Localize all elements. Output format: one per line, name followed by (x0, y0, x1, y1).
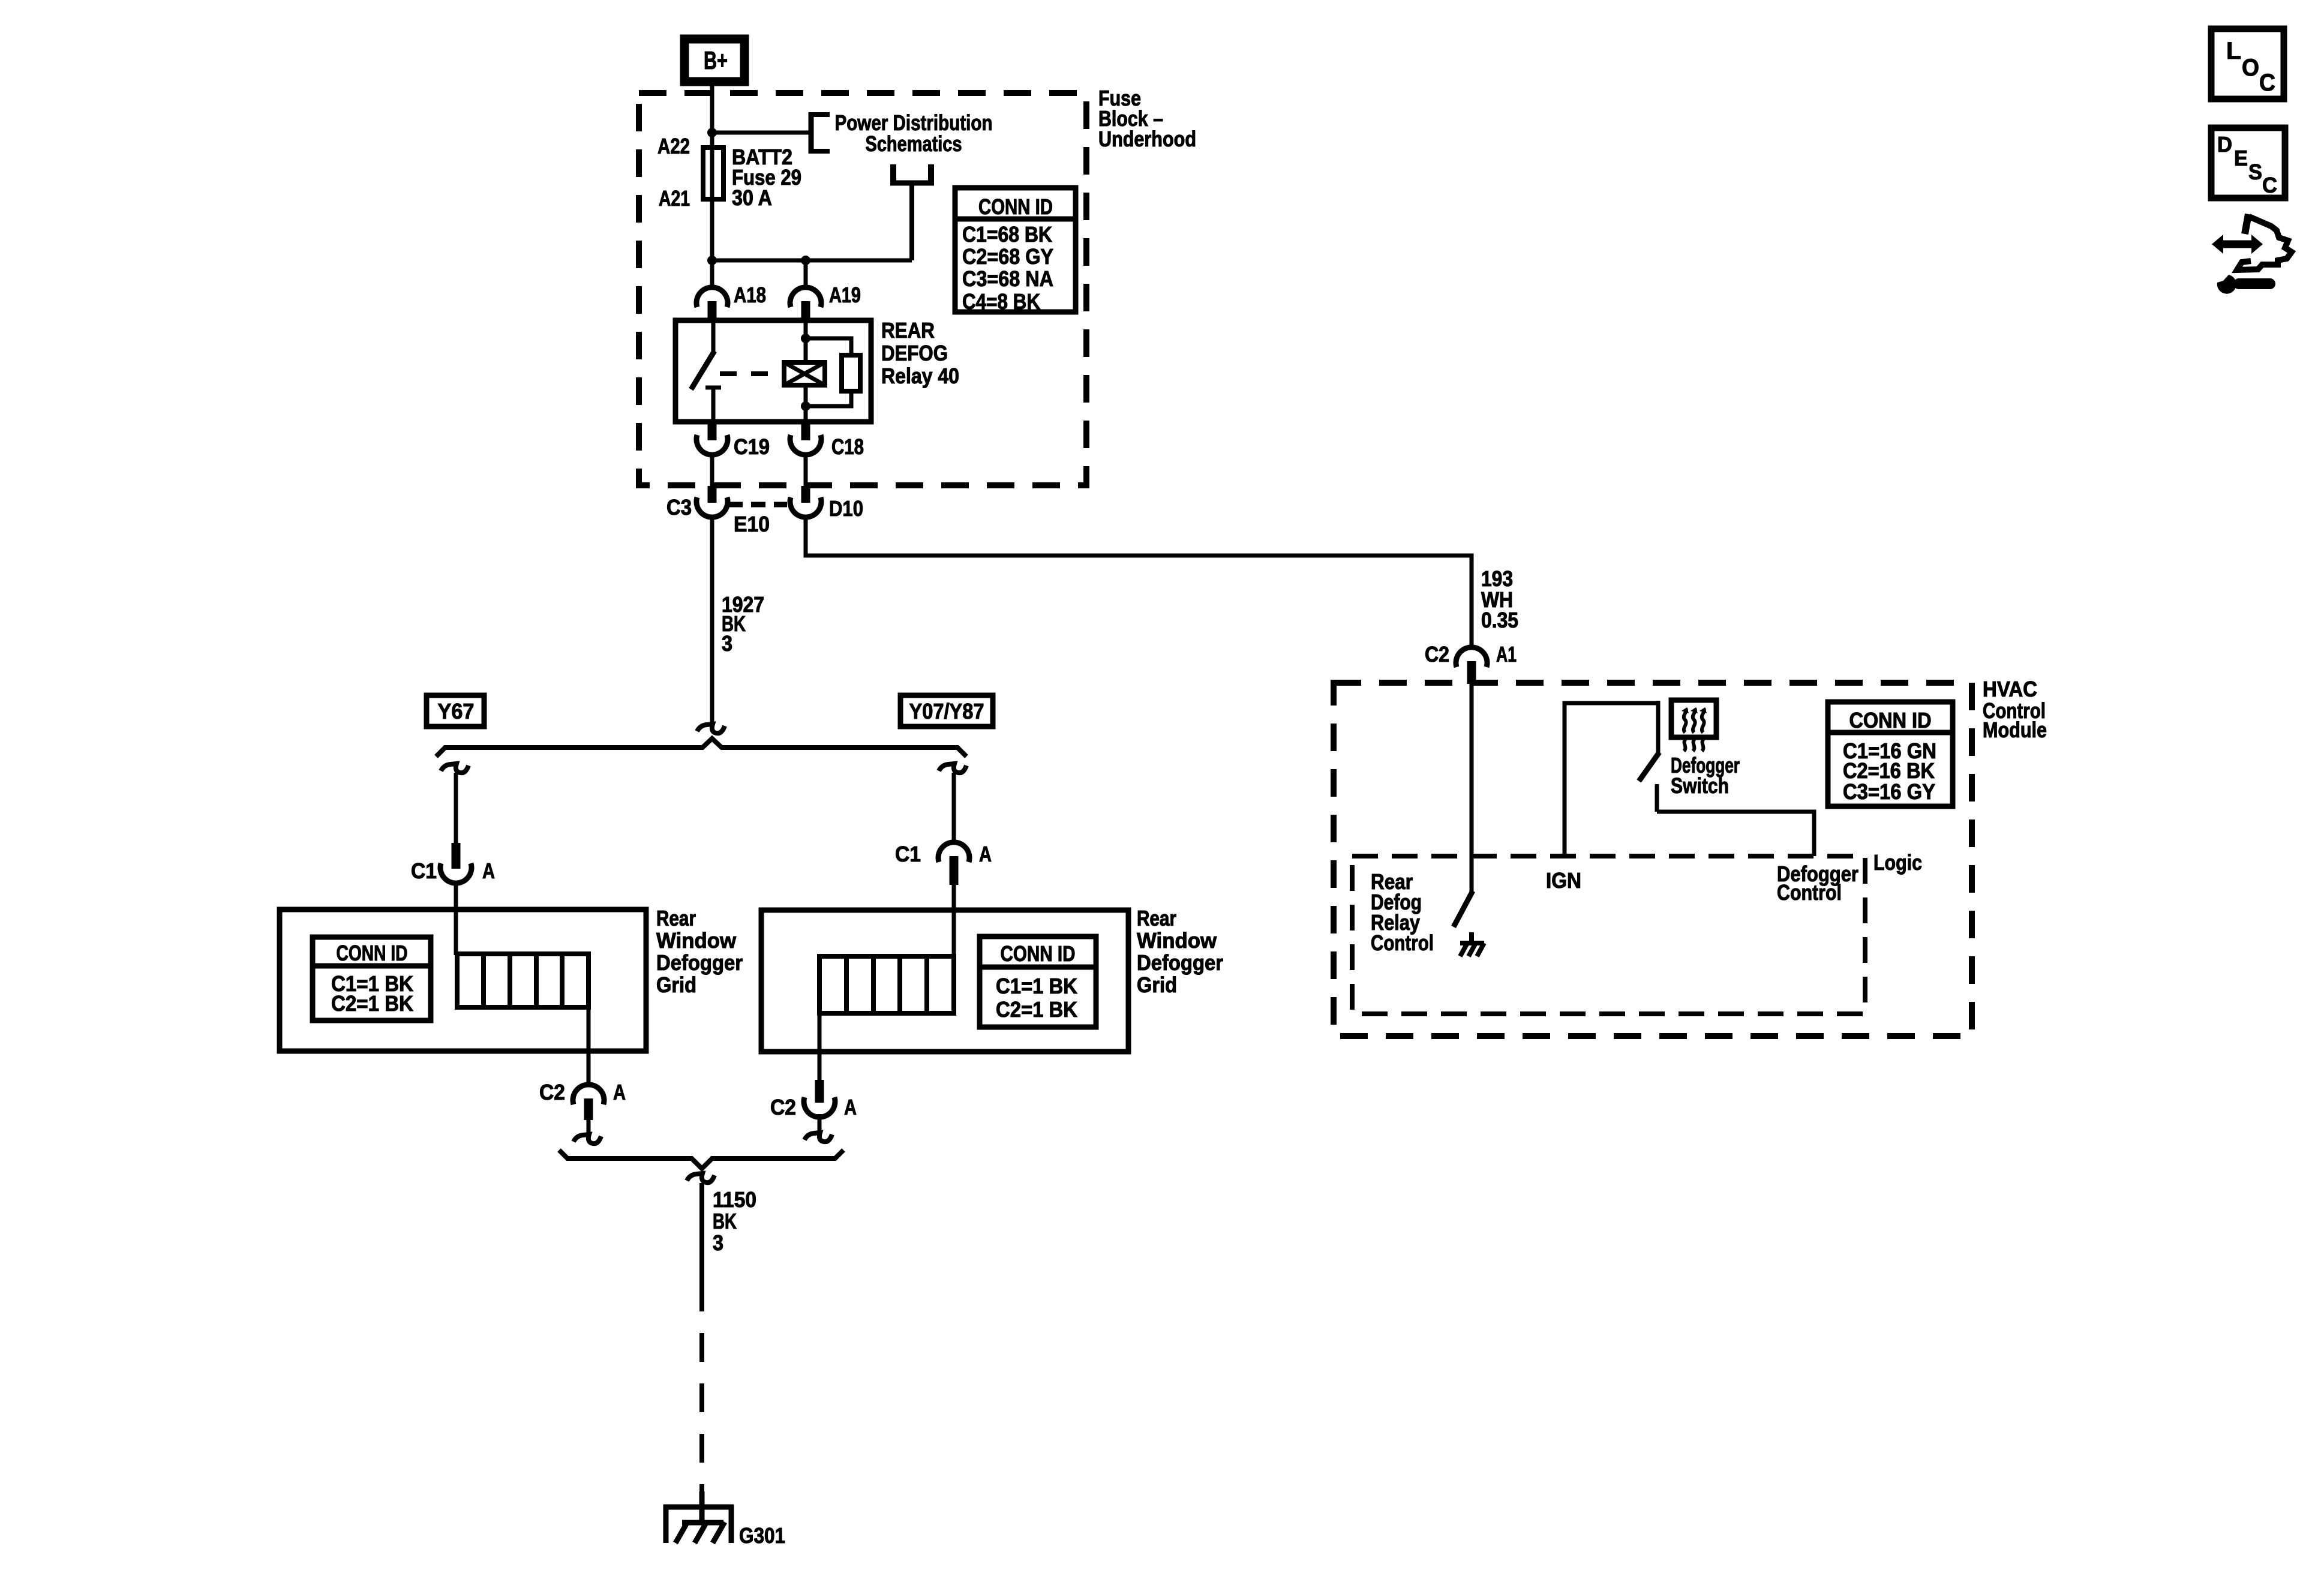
heater grid element right (819, 956, 954, 1013)
svg-text:C18: C18 (831, 434, 864, 459)
svg-text:Control: Control (1777, 880, 1842, 905)
svg-text:E10: E10 (734, 512, 770, 536)
svg-text:REAR: REAR (881, 318, 935, 343)
svg-text:Control: Control (1371, 930, 1434, 955)
connector C1 left grid (440, 843, 472, 883)
svg-text:Rear: Rear (1137, 906, 1176, 930)
svg-text:C3=16 GY: C3=16 GY (1843, 779, 1935, 804)
svg-text:S: S (2248, 160, 2262, 184)
svg-text:C2: C2 (770, 1095, 796, 1119)
wire: A19 through coil to C18 (804, 320, 808, 422)
label: pin A1 at HVAC (1496, 642, 1517, 667)
svg-text:C1: C1 (895, 842, 921, 866)
label: BATT2 Fuse 29 30 A (732, 145, 801, 210)
svg-text:C1=68 BK: C1=68 BK (962, 222, 1052, 247)
label: circuit 1150 BK 3 (713, 1187, 756, 1255)
splice brace: 1927 to both defogger grids (436, 739, 966, 757)
label: C2 A left (539, 1080, 626, 1104)
svg-text:Schematics: Schematics (866, 131, 962, 156)
wire: right branch to C1 (952, 773, 956, 843)
relay actuator dashed link (720, 371, 782, 376)
svg-text:A: A (482, 858, 495, 883)
svg-text:C1=1 BK: C1=1 BK (996, 974, 1077, 998)
svg-text:C2: C2 (539, 1080, 565, 1104)
svg-text:A: A (979, 842, 992, 866)
svg-text:Logic: Logic (1873, 850, 1922, 875)
wire: junction to power distribution bracket (712, 131, 811, 135)
bracket: power distribution schematics reference (809, 112, 830, 154)
wire: circuit 1927 BK from C3 to splice brace (710, 515, 714, 724)
label: C2 pin at HVAC (1425, 642, 1449, 667)
label: Defogger Control (1777, 861, 1858, 905)
wire: C19 to C3 (710, 453, 714, 488)
label: REAR DEFOG Relay 40 (881, 318, 959, 388)
connector C18 (790, 422, 821, 455)
wire: A1 to rear defog relay control switch (1470, 684, 1474, 892)
connector C2/A1 at HVAC (1456, 647, 1487, 684)
relay coil (784, 362, 825, 385)
svg-text:CONN ID: CONN ID (337, 941, 408, 965)
label: pin A18 (734, 283, 766, 307)
label: circuit 1927 BK 3 (722, 592, 764, 656)
wire: branch down to A19 (804, 260, 808, 290)
wire break hook below brace (687, 1173, 714, 1182)
wire: B+ down to relay A18 (710, 86, 714, 290)
connector A19 (790, 287, 821, 320)
connector C19 (696, 422, 728, 455)
svg-text:Switch: Switch (1671, 773, 1729, 798)
svg-text:CONN ID: CONN ID (1001, 941, 1076, 966)
svg-text:Grid: Grid (656, 972, 696, 997)
connector A18 (696, 287, 728, 320)
wire: circuit 1150 BK dashed run to G301 (699, 1283, 704, 1507)
connector C2 left grid (573, 1085, 604, 1120)
wire: left C2 to splice brace (587, 1120, 591, 1133)
LOC legend box (2211, 29, 2284, 99)
label: circuit 193 WH 0.35 (1481, 566, 1518, 632)
label: IGN (1546, 868, 1581, 893)
junction: A19 branch node (801, 256, 810, 265)
svg-text:BK: BK (713, 1209, 737, 1233)
svg-text:Window: Window (1137, 928, 1217, 953)
svg-text:Window: Window (656, 928, 737, 953)
svg-text:O: O (2242, 55, 2259, 81)
connector id table: HVAC (1828, 702, 1953, 806)
HVAC control module dashed box (1334, 683, 1972, 1036)
label: Fuse Block - Underhood (1098, 86, 1196, 151)
wire break symbol on left branch (441, 764, 469, 773)
label: connector C3 (666, 495, 692, 520)
svg-text:30 A: 30 A (732, 185, 772, 210)
connector C2 right grid (804, 1080, 835, 1117)
junction: coil bottom (801, 401, 810, 411)
connector C3 (696, 486, 728, 517)
svg-text:CONN ID: CONN ID (978, 194, 1053, 219)
label: Rear Window Defogger Grid left (656, 906, 743, 997)
svg-text:DEFOG: DEFOG (881, 341, 948, 365)
relay switch contact (691, 320, 721, 422)
label: Rear Window Defogger Grid right (1137, 906, 1223, 997)
svg-text:C19: C19 (734, 434, 770, 459)
in-line connector E10 dashed (728, 502, 787, 508)
svg-text:IGN: IGN (1546, 868, 1581, 893)
ground G301 (663, 1491, 734, 1543)
svg-text:C4=8 BK: C4=8 BK (962, 289, 1040, 314)
wire break symbol on 1927 wire (697, 724, 725, 733)
svg-text:Y07/Y87: Y07/Y87 (909, 699, 984, 724)
ground: relay control internal (1460, 932, 1484, 956)
svg-text:A1: A1 (1496, 642, 1517, 667)
wire: defogger switch to defogger control (1657, 812, 1814, 856)
grid location box Y67 (427, 695, 484, 727)
svg-text:G301: G301 (739, 1523, 785, 1548)
svg-text:HVAC: HVAC (1983, 677, 2037, 701)
switch: defogger switch (1639, 701, 1659, 812)
junction: B+ feed node (707, 128, 717, 137)
right rear window defogger grid box (761, 910, 1128, 1052)
svg-text:A21: A21 (659, 186, 690, 211)
svg-text:C2=1 BK: C2=1 BK (331, 991, 413, 1016)
svg-text:A22: A22 (657, 134, 690, 158)
svg-text:C: C (2262, 173, 2277, 197)
wire: circuit 1150 BK solid (699, 1183, 704, 1283)
svg-text:A: A (613, 1080, 626, 1104)
svg-text:Y67: Y67 (438, 699, 475, 724)
connector id table: left grid (313, 937, 431, 1020)
svg-text:Underhood: Underhood (1098, 127, 1196, 151)
label: pin A19 (829, 283, 861, 307)
label: ground G301 (739, 1523, 785, 1548)
connector D10 (790, 486, 821, 517)
wire: A19 branch horizontal (712, 259, 912, 263)
B+ power symbol (684, 39, 744, 82)
svg-text:D: D (2217, 132, 2232, 157)
wire: circuit 193 from D10 to HVAC C2 A1 (806, 515, 1472, 649)
svg-text:Rear: Rear (656, 906, 696, 930)
svg-text:C3: C3 (666, 495, 692, 520)
wire: C1 into right grid (952, 885, 956, 956)
connector id table: right grid (980, 936, 1096, 1027)
fuse BATT2 Fuse 29 30A (703, 148, 723, 199)
svg-text:0.35: 0.35 (1481, 608, 1518, 632)
svg-text:1150: 1150 (713, 1187, 756, 1212)
label: C1 A left (411, 858, 495, 883)
splice brace: grids to circuit 1150 (559, 1150, 843, 1169)
wire: C18 to D10 (804, 453, 808, 488)
svg-text:Grid: Grid (1137, 972, 1177, 997)
svg-text:3: 3 (722, 631, 732, 656)
svg-text:C2: C2 (1425, 642, 1449, 667)
service information icon (2212, 214, 2292, 294)
wire: left branch to C1 (454, 773, 458, 844)
svg-text:C: C (2259, 70, 2275, 96)
relay K: rear defog relay 40 box (675, 320, 871, 422)
label: C2 A right (770, 1095, 857, 1119)
switch: rear defog relay control (1454, 891, 1473, 927)
label: Logic (1873, 850, 1922, 875)
svg-text:A18: A18 (734, 283, 766, 307)
svg-text:3: 3 (713, 1230, 723, 1255)
indicator: rear defog heat icon (1671, 700, 1716, 751)
label: pin C19 (734, 434, 770, 459)
wire: left grid element to C2 (587, 1007, 591, 1087)
wire break symbol on right branch (939, 764, 966, 773)
label: Power Distribution Schematics (835, 110, 993, 156)
label: connector E10 (734, 512, 770, 536)
svg-text:A19: A19 (829, 283, 861, 307)
svg-text:Module: Module (1983, 718, 2047, 742)
connector C1 right grid (938, 842, 969, 885)
svg-text:E: E (2234, 146, 2248, 170)
heater grid element left (457, 954, 588, 1007)
svg-text:C2=68 GY: C2=68 GY (962, 244, 1053, 269)
svg-text:Defogger: Defogger (656, 950, 743, 975)
svg-text:C1: C1 (411, 858, 437, 883)
DESC legend box (2211, 128, 2285, 198)
left rear window defogger grid box (280, 909, 646, 1051)
wire break symbol below left C2 (574, 1134, 601, 1143)
svg-text:C2=1 BK: C2=1 BK (996, 997, 1077, 1022)
svg-text:C3=68 NA: C3=68 NA (962, 266, 1053, 291)
label: connector D10 (829, 496, 863, 521)
off-page connector fork to power distribution (890, 164, 934, 260)
wire: right C2 to splice brace (818, 1114, 822, 1132)
wire: C1 into left grid (454, 883, 458, 955)
label: HVAC Control Module (1983, 677, 2047, 742)
wire: right grid element to C2 (818, 1013, 822, 1081)
svg-text:L: L (2226, 38, 2241, 64)
logic dashed box (1352, 856, 1865, 1014)
relay suppression resistor (806, 338, 860, 406)
wire break symbol below right C2 (804, 1133, 832, 1142)
wire: IGN feed (1565, 703, 1658, 856)
grid location box Y07/Y87 (900, 695, 993, 727)
label: pin A22 (657, 134, 690, 158)
label: Defogger Switch (1671, 753, 1740, 798)
svg-text:D10: D10 (829, 496, 863, 521)
svg-text:Defogger: Defogger (1137, 950, 1223, 975)
label: pin A21 (659, 186, 690, 211)
junction: main wire at branch (707, 256, 717, 265)
svg-text:CONN ID: CONN ID (1849, 708, 1932, 733)
svg-text:B+: B+ (704, 46, 728, 74)
svg-text:A: A (844, 1095, 857, 1119)
fuse block underhood dashed box (639, 93, 1086, 485)
label: pin C18 (831, 434, 864, 459)
svg-text:Relay 40: Relay 40 (881, 364, 959, 388)
label: C1 A right (895, 842, 992, 866)
connector id table: fuse block (955, 188, 1076, 314)
label: Rear Defog Relay Control (1371, 869, 1434, 955)
junction: coil top (801, 334, 810, 343)
